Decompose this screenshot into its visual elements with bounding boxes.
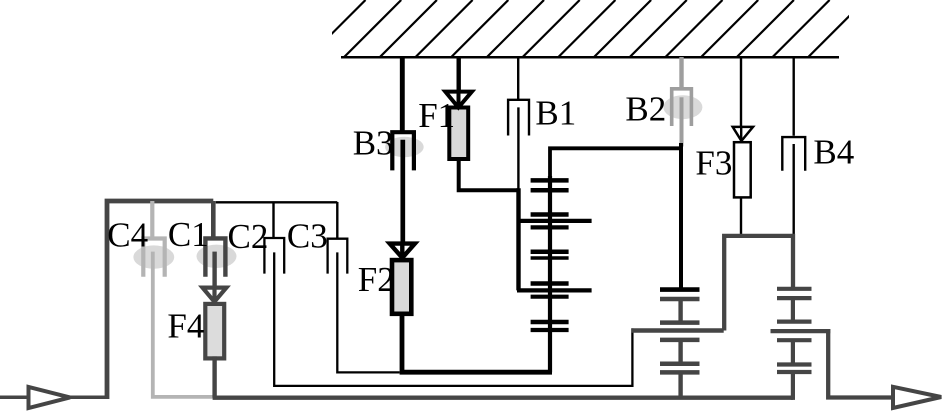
brake B3 stem: [400, 57, 405, 131]
clutch C3 inner stem wire to F2 foot: [337, 252, 399, 372]
output gearset plate O3: [777, 320, 812, 324]
wire B2 down to ring: [679, 143, 683, 290]
brake B1 inner stem wire: [517, 107, 519, 190]
wire gray F3/B4 manifold: [724, 236, 793, 331]
ring gearset plate R1 black: [660, 287, 700, 292]
ring gearset plate R5: [660, 338, 700, 343]
wire F1 bottom elbow: [459, 159, 519, 190]
svg-text:F4: F4: [167, 306, 204, 345]
svg-text:F1: F1: [418, 96, 455, 135]
brake B3 ellipse: [385, 137, 424, 157]
wire gearset center shaft: [548, 176, 552, 372]
brake B4 stem: [793, 57, 795, 136]
ring gearset stem b: [678, 340, 682, 364]
svg-text:C4: C4: [107, 216, 148, 255]
clutch C4 inner stem wire to bottom: [153, 252, 213, 397]
output gearset plate O6: [777, 362, 812, 366]
brake B1 stem: [517, 57, 519, 99]
brake B4 bracket: [782, 137, 805, 171]
brake B2 ellipse: [663, 95, 702, 119]
gearset plate E2: [531, 328, 569, 332]
output gearset stem to bottom rail: [791, 372, 795, 400]
gearset long plate DL: [517, 288, 592, 292]
freewheel F3 stem: [740, 57, 742, 127]
svg-text:B3: B3: [353, 124, 394, 163]
freewheel F1 rectangle: [449, 108, 468, 160]
clutch C4 stem: [150, 201, 154, 237]
gearset plate C1b: [531, 249, 569, 254]
clutch C4 ellipse: [133, 245, 174, 268]
gearset plate A2: [531, 188, 569, 193]
wire F3 bottom stem: [740, 198, 742, 236]
gearset plate B1s: [531, 212, 569, 217]
clutch C3 bracket: [328, 239, 348, 274]
gearset plate B2s: [531, 225, 569, 229]
wire input line 2: [68, 396, 107, 400]
output arrow: [893, 387, 941, 408]
ring gearset stem a: [678, 299, 682, 323]
ring gearset plate R7: [660, 370, 700, 375]
svg-text:F2: F2: [358, 260, 395, 299]
clutch C4 bracket: [143, 239, 164, 277]
ring gearset stem to bottom rail: [678, 372, 682, 397]
clutch C3 stem: [336, 202, 338, 238]
wire sun shaft vertical: [516, 188, 520, 290]
brake B2 stem: [679, 57, 683, 87]
wire thin top rail: [216, 201, 338, 203]
ring gearset long plate carrier: [631, 328, 723, 332]
clutch C1 bracket: [205, 238, 225, 276]
freewheel F2 triangle: [390, 244, 415, 258]
freewheel F1 triangle: [445, 92, 472, 108]
brake B3 bracket: [392, 132, 414, 170]
svg-text:C2: C2: [228, 217, 269, 256]
wire input line: [0, 396, 29, 400]
ground line: [341, 56, 839, 59]
clutch C2 bracket: [264, 238, 284, 274]
svg-text:B2: B2: [625, 90, 666, 129]
output gearset long plate: [771, 329, 831, 333]
svg-text:F3: F3: [695, 144, 732, 183]
wire F4 bottom stem: [212, 356, 216, 397]
ring gearset plate R6: [660, 361, 700, 366]
wire F2 bottom elbow to gearset: [402, 314, 552, 372]
output gearset plate O2: [777, 296, 812, 300]
wire output elbow: [828, 329, 893, 398]
freewheel F2 rectangle: [392, 260, 411, 314]
gearset plate E1: [531, 320, 569, 325]
svg-text:C1: C1: [168, 215, 209, 254]
ground hatch: [308, 0, 866, 58]
svg-text:C3: C3: [287, 216, 328, 255]
ring gearset plate R3: [660, 320, 700, 325]
clutch C1 stem: [211, 201, 216, 237]
clutch C1 inner stem wire: [212, 252, 216, 288]
freewheel F1 stem: [457, 57, 461, 92]
gearset long plate BL: [517, 219, 592, 223]
gearset plate D1: [531, 281, 569, 286]
freewheel F3 rectangle: [734, 142, 751, 197]
ring gearset plate R2: [660, 297, 700, 302]
freewheel F4 rectangle: [205, 304, 224, 359]
clutch C1 ellipse: [197, 245, 237, 268]
brake B1 bracket: [508, 100, 529, 136]
output gearset plate O5: [777, 338, 812, 342]
output gearset stem b: [791, 340, 795, 364]
brake B2 inner stem: [680, 97, 684, 146]
gearset plate C2b: [531, 256, 569, 260]
svg-text:B1: B1: [535, 94, 576, 133]
svg-text:B4: B4: [813, 132, 854, 171]
output gearset stem a: [791, 298, 795, 322]
output gearset plate O7: [777, 370, 812, 374]
wire gearset top elbow to B2 line: [550, 148, 683, 179]
input arrow: [29, 387, 71, 408]
gearset plate A1: [531, 178, 569, 183]
output gearset plate O1: [777, 287, 812, 291]
clutch C2 inner stem wire to carrier: [274, 252, 632, 386]
wire input riser and top rail: [107, 201, 213, 399]
wire bottom main rail: [213, 396, 793, 400]
gearset plate D2: [531, 295, 569, 299]
freewheel F3 triangle: [733, 127, 753, 141]
brake B3 inner stem wire to F2: [400, 140, 405, 244]
brake B2 bracket: [672, 89, 692, 126]
clutch C2 stem: [272, 202, 274, 238]
freewheel F4 triangle: [203, 288, 227, 302]
brake B4 inner stem wire: [793, 144, 795, 236]
